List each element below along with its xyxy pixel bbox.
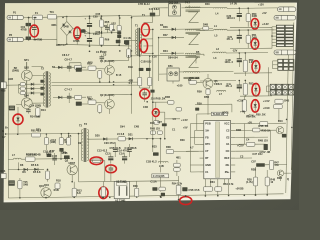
wire — [109, 75, 111, 82]
svg-text:1.5: 1.5 — [172, 118, 176, 121]
capacitor C03 X-cap — [33, 18, 35, 28]
svg-text:C05: C05 — [96, 13, 101, 16]
resistor R11 — [274, 104, 283, 108]
label row — [151, 97, 166, 100]
scatter labels — [96, 13, 101, 16]
wire — [6, 84, 21, 86]
wire — [204, 179, 206, 187]
inductor L7 — [13, 158, 21, 159]
IC pin 12 — [231, 150, 236, 152]
svg-text:6.8: 6.8 — [77, 192, 81, 195]
svg-text:C13: C13 — [105, 152, 110, 155]
diode D2 — [160, 28, 184, 30]
inductor L06 — [158, 161, 168, 162]
svg-text:R1B 54B: R1B 54B — [26, 153, 37, 156]
svg-text:R06: R06 — [105, 39, 110, 42]
resistor R50 — [247, 8, 249, 13]
red circle mark 5 — [251, 19, 259, 30]
capacitor C34 dark — [152, 187, 157, 191]
resistor R15 — [88, 66, 96, 70]
bus wire top — [57, 15, 84, 18]
schematic frame left upper — [7, 60, 9, 130]
wire — [132, 15, 160, 17]
resistor R08 — [117, 25, 121, 30]
capacitor C11 dark — [139, 68, 144, 71]
resistor R14 — [37, 107, 39, 118]
resistor R23 — [246, 142, 255, 146]
svg-text:R44: R44 — [163, 50, 168, 53]
wire — [109, 95, 111, 100]
svg-text:(1.7k): (1.7k) — [246, 181, 253, 184]
svg-text:VCC1: VCC1 — [222, 111, 229, 114]
page edge highlight — [4, 3, 297, 203]
wire — [223, 179, 225, 184]
wire — [128, 39, 137, 41]
wire — [139, 86, 141, 88]
wire T3 out — [90, 160, 105, 162]
svg-text:R14: R14 — [41, 109, 46, 112]
svg-text:CT: CT — [205, 150, 209, 153]
svg-text:C11A: C11A — [150, 181, 156, 184]
transformer T1 primary winding — [136, 30, 137, 55]
svg-text:D83-004: D83-004 — [169, 2, 179, 5]
return bus D — [240, 95, 272, 97]
wire rail top — [160, 7, 168, 9]
wire — [110, 173, 112, 181]
IC pin 16 — [231, 123, 236, 125]
inductor L5b pill — [118, 137, 125, 141]
junction — [239, 29, 241, 31]
svg-text:Q2 (D.30BF): Q2 (D.30BF) — [100, 94, 115, 97]
svg-text:C14 (10B): C14 (10B) — [30, 104, 42, 107]
wire — [265, 164, 270, 166]
wire rail above IC — [195, 103, 232, 105]
junction — [146, 138, 148, 140]
connector J2 AC neutral — [7, 37, 24, 41]
svg-text:100U.4: 100U.4 — [227, 17, 236, 20]
resistor R54 — [243, 96, 245, 100]
wire — [210, 179, 212, 187]
wire vertical bus — [152, 29, 154, 110]
diode D8 pill — [75, 65, 82, 69]
wire — [197, 113, 212, 115]
diode D10 — [53, 96, 86, 98]
svg-text:C 2.5V D5: C 2.5V D5 — [153, 175, 165, 178]
resistor R54 pill — [176, 185, 181, 194]
svg-text:R4B .DX: R4B .DX — [258, 139, 268, 142]
resistor R13b pill — [154, 121, 160, 125]
resistor R24 — [45, 134, 47, 138]
junction dots mid — [131, 17, 133, 19]
svg-text:B+: B+ — [5, 127, 9, 130]
diode D4 — [160, 52, 184, 54]
wire — [32, 65, 43, 67]
diode D13 dark — [76, 102, 82, 106]
svg-text:C07: C07 — [251, 160, 256, 163]
svg-text:C3? 10U: C3? 10U — [252, 153, 262, 156]
svg-text:D20: D20 — [95, 135, 100, 138]
svg-text:3N-: 3N- — [225, 164, 229, 167]
diode D20 — [103, 138, 107, 141]
svg-text:J10 R0B .DX: J10 R0B .DX — [151, 97, 166, 100]
wire — [152, 16, 154, 22]
svg-text:C5B 41.B: C5B 41.B — [110, 147, 121, 150]
wire bus y134 — [6, 133, 79, 135]
IC pin 15 — [231, 130, 236, 132]
wire — [190, 150, 199, 152]
thermistor T01 — [48, 14, 57, 19]
red circle mark 7 — [252, 61, 260, 73]
svg-text:C1 1N: C1 1N — [124, 37, 131, 40]
svg-text:C23 473.6: C23 473.6 — [104, 142, 116, 145]
choke winding W2 — [185, 29, 200, 30]
svg-text:G: G — [2, 130, 4, 133]
mosfet Q5 — [203, 79, 213, 89]
wire — [152, 8, 154, 13]
svg-text:R2B: R2B — [251, 169, 256, 172]
diode D53 — [254, 88, 257, 91]
red circle mark 9 — [251, 100, 259, 112]
svg-text:FB: FB — [205, 136, 209, 139]
wire — [207, 88, 209, 91]
svg-text:1N4: 1N4 — [120, 126, 125, 129]
svg-text:C.N 6.8J: C.N 6.8J — [149, 8, 160, 11]
resistor R21 — [235, 122, 260, 124]
svg-text:R21: R21 — [36, 129, 41, 132]
svg-text:C8 4.7: C8 4.7 — [62, 54, 70, 57]
transformer T4 dark — [9, 180, 15, 185]
resistor R16 — [98, 71, 102, 79]
wire — [268, 67, 270, 96]
wire — [186, 150, 190, 152]
svg-text:1N-: 1N- — [205, 129, 209, 132]
svg-text:H1B: H1B — [8, 78, 13, 81]
capacitor C25 electrolytic — [110, 153, 112, 157]
capacitor C8 — [68, 63, 70, 67]
svg-text:+5VSB: +5VSB — [235, 188, 243, 191]
svg-text:T4.7: T4.7 — [185, 2, 191, 5]
wire bus left of IC — [189, 124, 191, 172]
junction dots bottom frame — [102, 197, 104, 199]
diode D22 — [155, 102, 157, 109]
red circle mark 2 — [74, 27, 81, 39]
red circle mark 6 — [251, 39, 259, 50]
schematic frame bottom — [8, 194, 283, 198]
wire — [57, 16, 67, 18]
red ellipse mark 12 — [90, 157, 103, 165]
wire — [231, 104, 233, 112]
svg-text:C4B: C4B — [61, 151, 66, 154]
wire — [188, 5, 190, 8]
label BF — [14, 67, 18, 70]
wire — [200, 70, 234, 72]
svg-text:C16: C16 — [152, 56, 157, 59]
svg-text:R13: R13 — [150, 122, 155, 125]
wire — [227, 29, 274, 31]
IC pin 1 — [200, 123, 204, 125]
svg-text:DTC: DTC — [205, 143, 210, 146]
resistor R22 wire — [235, 129, 276, 131]
svg-text:470B: 470B — [36, 39, 42, 42]
svg-text:C8 4.7: C8 4.7 — [65, 59, 73, 62]
svg-text:Q04: Q04 — [24, 94, 29, 97]
svg-text:C06.2: C06.2 — [96, 31, 103, 34]
wire — [190, 171, 199, 173]
IC U1 center stripe — [215, 122, 219, 178]
svg-text:+5V: +5V — [248, 121, 253, 124]
driver transformer T2 left winding — [43, 73, 45, 106]
svg-text:C1B 41.2: C1B 41.2 — [146, 160, 157, 163]
wire — [195, 130, 200, 132]
wire — [159, 73, 167, 75]
resistor R33 — [19, 178, 21, 180]
diode D50 — [254, 22, 257, 25]
wire — [176, 160, 178, 163]
inductor L3 — [213, 52, 227, 53]
svg-text:Q03: Q03 — [24, 67, 29, 70]
svg-text:+5V: +5V — [183, 126, 188, 129]
wire — [235, 143, 246, 145]
svg-text:U2 T5NB: U2 T5NB — [116, 181, 127, 184]
wire — [144, 88, 146, 91]
zigzag link W1 — [188, 12, 198, 23]
capacitor C24 — [129, 144, 131, 150]
svg-text:D5 6.8: D5 6.8 — [31, 164, 39, 167]
red ellipse mark 14 — [99, 187, 108, 199]
resistor R60 — [203, 187, 212, 191]
capacitor C29 dark — [64, 155, 70, 159]
svg-text:R10: R10 — [278, 120, 283, 123]
svg-text:R05: R05 — [105, 21, 110, 24]
capacitor C1 dark — [81, 30, 86, 33]
label — [247, 114, 254, 117]
svg-text:R64: R64 — [210, 181, 215, 184]
capacitor C35 dark — [161, 193, 165, 196]
capacitor C15 box — [1, 173, 6, 178]
svg-text:R5B .DX: R5B .DX — [258, 125, 268, 128]
red ellipse mark 16 — [180, 197, 192, 205]
capacitor C28 — [54, 153, 56, 158]
resistor R47 pill — [269, 160, 273, 169]
capacitor Q03 emitter — [9, 106, 15, 111]
label +1.5V — [181, 119, 188, 122]
connector P6 pill — [274, 50, 296, 55]
diode D5 — [8, 168, 44, 170]
wire AC line 2 — [24, 38, 57, 40]
drive ladder rung 3 — [19, 92, 45, 94]
wire row D — [200, 80, 236, 82]
red circle mark 11 — [140, 89, 150, 99]
wire — [104, 161, 106, 182]
resistor R20 — [149, 71, 151, 77]
wire bus y56 — [132, 54, 197, 57]
wire — [68, 102, 70, 103]
svg-text:R4B: R4B — [236, 129, 241, 132]
label B — [116, 74, 122, 77]
wire — [17, 133, 19, 135]
svg-text:D4B: D4B — [203, 23, 208, 26]
svg-text:47K: 47K — [274, 164, 279, 167]
IC pin 3 — [200, 136, 204, 138]
wire — [197, 81, 204, 83]
wire — [203, 54, 205, 56]
svg-text:C05: C05 — [93, 16, 98, 19]
svg-text:B 15: B 15 — [116, 74, 122, 77]
diode D12 dark — [76, 68, 82, 72]
resistor J10 pill — [176, 108, 182, 111]
svg-text:R14 D4B: R14 D4B — [30, 116, 41, 119]
label — [30, 154, 41, 157]
wire bus y181 — [79, 181, 179, 182]
resistor R36 — [136, 181, 138, 188]
capacitor dark — [282, 134, 286, 138]
svg-text:C13 (3B.B: C13 (3B.B — [125, 147, 137, 150]
diode D11 pill — [75, 95, 82, 99]
label C06 — [141, 60, 152, 63]
transistor Q2b — [67, 164, 77, 174]
red circle mark 3 — [141, 24, 149, 36]
wire — [156, 111, 165, 113]
diode D9 — [17, 107, 19, 134]
svg-text:2N+: 2N+ — [225, 171, 230, 174]
svg-text:R19: R19 — [128, 66, 133, 69]
resistor R21b — [32, 133, 41, 137]
junction — [101, 32, 103, 34]
wire — [144, 97, 146, 102]
svg-text:A2 73NB: A2 73NB — [115, 200, 126, 203]
wire fan CN1 — [272, 26, 276, 28]
connector P4 pill — [277, 7, 296, 12]
capacitor C32 dark — [162, 123, 167, 126]
wire — [66, 35, 68, 44]
junction — [5, 133, 7, 135]
svg-text:C1A 470.6: C1A 470.6 — [117, 150, 130, 153]
wire — [152, 111, 154, 153]
connector H18 — [1, 82, 6, 88]
resistor R32 — [47, 169, 49, 171]
capacitor C23b — [114, 144, 116, 150]
svg-text:+3.3V: +3.3V — [262, 23, 269, 26]
svg-text:RT: RT — [205, 157, 209, 160]
capacitor C23 — [238, 81, 240, 86]
wire — [139, 56, 141, 68]
capacitor C1a dark — [116, 40, 121, 44]
diode D1b — [117, 35, 121, 38]
IC U2 opto box — [114, 181, 129, 198]
label G — [2, 130, 4, 133]
svg-text:+5V: +5V — [262, 12, 267, 15]
terminal block CN1 — [276, 25, 284, 27]
wire — [172, 81, 174, 84]
svg-text:F30U4: F30U4 — [214, 83, 222, 86]
capacitor C33 dark — [182, 187, 187, 191]
capacitor C13 — [144, 91, 146, 93]
svg-text:13007: 13007 — [68, 162, 76, 165]
label arrow — [177, 84, 183, 87]
wire — [43, 16, 48, 18]
resistor R34 pill — [55, 183, 60, 189]
svg-text:OC: OC — [226, 150, 230, 153]
svg-text:<100: <100 — [177, 84, 183, 87]
wire — [8, 159, 13, 161]
wire drive pair bottom — [52, 84, 138, 87]
wire — [235, 136, 268, 138]
terminal block CN3 — [270, 84, 275, 89]
svg-text:4B1: 4B1 — [176, 157, 181, 160]
wire — [160, 167, 162, 172]
wire T1 pin bottom — [143, 52, 152, 54]
wire — [207, 74, 209, 79]
resistor R31 — [25, 157, 35, 161]
wire — [152, 93, 154, 111]
resistor D4B top — [203, 27, 209, 30]
diode column — [40, 80, 44, 83]
resistor R10 — [275, 99, 283, 103]
capacitor C.N snubber — [149, 8, 160, 11]
svg-text:Q: Q — [287, 178, 289, 181]
wire ladder rails — [18, 84, 20, 93]
IC pin 13 — [231, 143, 236, 145]
wire — [153, 101, 168, 103]
capacitor C12 dark — [146, 68, 151, 71]
svg-text:GND: GND — [205, 164, 211, 167]
resistor R18 — [98, 105, 102, 113]
capacitor C06 electrolytic — [89, 33, 91, 38]
transformer T3 right winding — [87, 130, 89, 161]
svg-text:C4D: C4D — [143, 106, 148, 109]
inductor L7b — [217, 90, 226, 91]
wire — [60, 150, 62, 159]
resistor R25 — [60, 134, 62, 138]
diode D3 — [160, 36, 184, 38]
capacitor C40 dark — [195, 108, 199, 111]
wire — [226, 52, 268, 54]
svg-text:R40: R40 — [205, 3, 210, 6]
drive ladder rung 1 — [19, 83, 45, 85]
wire — [79, 133, 83, 135]
svg-text:R4B .DX: R4B .DX — [150, 128, 160, 131]
wire — [190, 123, 199, 125]
capacitor on left leg — [125, 40, 129, 45]
capacitor C27 — [110, 165, 112, 168]
wire — [26, 62, 28, 70]
IC pin 8 — [200, 171, 204, 173]
wire — [164, 126, 166, 139]
IC pin 5 — [200, 150, 204, 152]
wire T1 pin to right — [143, 28, 152, 30]
IC U1 body — [204, 121, 231, 179]
resistor R37b — [159, 187, 165, 191]
resistor R58 pill — [189, 80, 197, 84]
label +5VSB — [235, 188, 243, 191]
svg-text:+C1N: +C1N — [247, 114, 254, 117]
svg-text:(D4B): (D4B) — [12, 69, 19, 72]
svg-text:L5 6.8: L5 6.8 — [117, 133, 125, 136]
label — [263, 100, 270, 103]
capacitor C21 — [238, 30, 240, 35]
diode D1 — [117, 31, 121, 34]
diode D51 — [254, 42, 257, 45]
wire right bus 2 — [291, 23, 294, 171]
capacitor C17 dark — [47, 154, 52, 157]
svg-text:R30: R30 — [180, 139, 185, 142]
svg-text:1N: 1N — [78, 142, 81, 145]
svg-text:C7 4.7: C7 4.7 — [65, 89, 73, 92]
capacitor dark — [153, 152, 159, 155]
capacitor C04 — [76, 29, 78, 36]
label SP1 — [24, 59, 29, 62]
svg-text:+C1N: +C1N — [237, 99, 244, 102]
